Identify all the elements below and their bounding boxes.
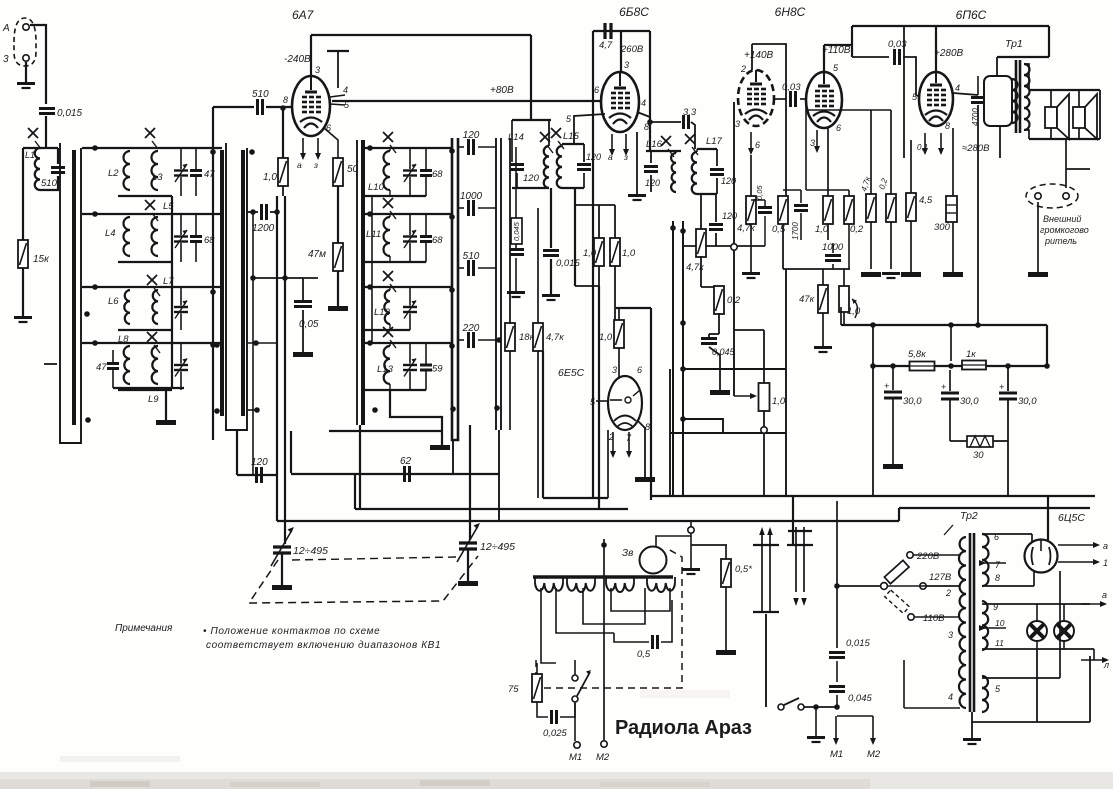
resistor 4,7к IF <box>533 323 543 351</box>
wire <box>389 343 391 346</box>
capacitor 0,025 <box>552 710 557 724</box>
svg-text:3: 3 <box>3 54 9 65</box>
wire L17 top <box>697 148 717 150</box>
wire <box>389 256 391 262</box>
svg-text:громкогово: громкогово <box>1040 225 1089 235</box>
wire row bottom L2/L3 <box>118 195 172 197</box>
ground left coil bank <box>156 420 176 425</box>
svg-text:1200: 1200 <box>252 223 275 234</box>
wire 62 bus up <box>290 431 292 473</box>
core mark left row 2 <box>145 200 158 221</box>
svg-text:L12: L12 <box>374 307 391 318</box>
coil L15 <box>557 146 562 188</box>
wire to pot 1,0 <box>843 269 845 286</box>
ground 30,0 a <box>883 464 903 469</box>
svg-text:а: а <box>608 152 613 162</box>
coil L8 <box>124 346 130 384</box>
wire <box>409 372 411 391</box>
capacitor 0,05 cathode <box>758 208 772 213</box>
wire <box>425 371 427 391</box>
svg-text:0,015: 0,015 <box>556 258 580 269</box>
svg-text:6А7: 6А7 <box>292 8 315 22</box>
svg-text:30: 30 <box>973 450 984 461</box>
wire <box>716 149 718 166</box>
wire <box>282 186 284 196</box>
resistor 18к <box>505 323 515 351</box>
wire 5,8к left <box>873 365 910 367</box>
wire <box>700 256 702 287</box>
wire <box>180 287 182 306</box>
coil L17 <box>692 152 697 194</box>
svg-text:а: а <box>297 160 302 170</box>
junction plate node <box>647 119 653 125</box>
wire <box>562 577 564 583</box>
trimmer capacitor L13 <box>403 359 417 377</box>
ground 0,015 mid <box>710 390 730 395</box>
svg-text:а: а <box>1103 541 1108 551</box>
svg-text:1,0: 1,0 <box>815 224 829 235</box>
wire osc row bottom L11 <box>365 261 426 263</box>
terminal detector <box>731 244 737 250</box>
tuning gang section bar 3 <box>356 140 358 425</box>
wire plate 6Н8С-1 <box>751 44 753 70</box>
svg-text:2: 2 <box>945 588 951 598</box>
wire L17 bottom <box>697 193 717 195</box>
wire tap y343 <box>247 342 277 344</box>
svg-text:з: з <box>313 160 318 170</box>
coil L11 <box>384 217 390 256</box>
wire secondary top <box>1024 64 1029 90</box>
wire x873 down to bus <box>872 366 874 496</box>
tube 6Е5С <box>608 376 642 430</box>
svg-text:+80В: +80В <box>490 85 514 96</box>
capacitor 47 row L2 <box>190 171 202 176</box>
junction dot <box>449 214 455 220</box>
svg-text:+110В: +110В <box>822 45 851 56</box>
capacitor 62 bus <box>405 466 410 482</box>
svg-text:6: 6 <box>755 140 760 150</box>
resistor 50 <box>333 158 343 186</box>
wire plate right <box>824 44 852 46</box>
wire <box>598 205 600 238</box>
terminal <box>778 704 784 710</box>
wire <box>112 350 114 363</box>
capacitor 68 L11 <box>420 237 432 242</box>
wire bar to pot return <box>683 419 723 433</box>
capacitor 120 ladder <box>469 139 474 155</box>
terminal pot <box>761 427 767 433</box>
wire <box>1093 649 1095 660</box>
resistor 0,2 vertical <box>886 194 896 222</box>
wire М2 long <box>603 539 605 740</box>
junction dot <box>210 342 216 348</box>
svg-text:127В: 127В <box>929 572 952 583</box>
svg-text:6: 6 <box>836 123 841 133</box>
svg-text:1к: 1к <box>966 349 976 360</box>
wire box left side long <box>592 31 594 497</box>
svg-text:Тр2: Тр2 <box>960 510 978 522</box>
wire <box>993 440 1008 442</box>
wire <box>302 278 304 300</box>
wire x670 to bus <box>669 369 671 496</box>
bus via capacitor 120 <box>237 474 277 476</box>
svg-text:+140В: +140В <box>744 50 774 61</box>
capacitor 0,03 interstage <box>791 91 796 107</box>
svg-text:6Н8С: 6Н8С <box>775 5 806 19</box>
coil L3 <box>152 151 159 190</box>
core mark left row 3 <box>147 275 160 296</box>
wire switch up <box>574 660 576 675</box>
ground osc bank <box>430 445 450 450</box>
wire <box>675 151 677 153</box>
svg-text:0,045: 0,045 <box>512 221 521 241</box>
capacitor 4,7 <box>605 23 611 39</box>
svg-text:4: 4 <box>948 692 953 702</box>
arrow tap 7 <box>979 560 1006 566</box>
junction dot <box>948 363 954 369</box>
wire grid node to R1,0 <box>282 108 284 158</box>
antenna terminal A <box>23 24 29 30</box>
wire <box>715 233 717 246</box>
svg-text:47к: 47к <box>799 294 815 305</box>
resistor 0,5 plate load <box>778 196 788 224</box>
svg-text:15к: 15к <box>33 254 50 265</box>
svg-text:6Е5С: 6Е5С <box>558 367 585 379</box>
svg-text:1,0: 1,0 <box>772 396 786 407</box>
ground 0,5 <box>716 650 736 655</box>
dashed motor box <box>536 549 682 688</box>
resistor 1к <box>962 361 986 370</box>
svg-text:0,045: 0,045 <box>848 693 872 704</box>
wire to ground mains <box>815 707 817 736</box>
wire <box>725 587 727 650</box>
wire <box>848 190 850 196</box>
svg-text:120: 120 <box>251 457 268 468</box>
wire <box>409 314 411 331</box>
wire to R0,5 <box>691 544 727 546</box>
svg-text:L9: L9 <box>148 394 159 405</box>
junction row L4 <box>92 211 98 217</box>
svg-text:1,0: 1,0 <box>622 248 636 259</box>
wire R50 to R47м <box>337 186 339 243</box>
wire 6П6С top <box>935 26 937 72</box>
capacitor 0,015 mains a <box>829 653 845 658</box>
wire <box>996 57 998 76</box>
resistor 4,7к vertical <box>866 194 876 222</box>
wire <box>914 616 960 618</box>
wire +80В screen bus <box>332 100 601 102</box>
wire cap to pin 8 <box>266 106 291 108</box>
svg-text:• Положение контактов по схеме: • Положение контактов по схеме <box>203 626 380 637</box>
wire L15 top <box>562 143 584 145</box>
wire varcap1 to ground <box>281 553 283 585</box>
wire 6Б8С top cap <box>620 31 622 72</box>
junction dot <box>214 342 220 348</box>
wire osc row bottom L10 <box>365 195 426 197</box>
wire y325 <box>841 324 1047 326</box>
wire eye pin 5 <box>596 400 608 402</box>
resistor 300 <box>946 196 957 222</box>
capacitor 1000 ladder <box>469 200 474 216</box>
junction dot <box>890 363 896 369</box>
wire L15 to AVC <box>574 188 576 286</box>
svg-text:0,03: 0,03 <box>782 82 801 93</box>
wire top bus to 6Б8С <box>311 34 531 36</box>
wire bypass cap <box>764 200 766 206</box>
wire bar3 down <box>359 425 361 509</box>
wire <box>782 197 784 198</box>
junction dot bar1 <box>84 311 90 317</box>
junction dot <box>834 583 840 589</box>
svg-text:0,5*: 0,5* <box>735 564 752 575</box>
resistor 1,0 osc grid <box>278 158 288 186</box>
capacitor 30,0 c <box>999 393 1017 399</box>
svg-text:Радиола Араз: Радиола Араз <box>615 717 752 739</box>
wire <box>708 334 710 337</box>
svg-text:L2: L2 <box>108 168 119 179</box>
svg-text:75: 75 <box>508 684 519 695</box>
svg-text:4: 4 <box>641 98 646 108</box>
wire row top L6/L7 <box>82 286 222 288</box>
wire eye pin down <box>607 430 609 498</box>
wire <box>843 312 845 325</box>
svg-text:4: 4 <box>343 85 348 95</box>
voltage selector column B <box>787 527 813 606</box>
scan noise bottom <box>0 772 1113 789</box>
core mark L1 <box>28 128 41 149</box>
wire winding 5 out <box>982 677 1060 679</box>
wire <box>890 222 892 269</box>
wire y433 pot return <box>670 432 786 434</box>
capacitor 1700 <box>794 206 808 211</box>
wire <box>832 243 834 253</box>
wire speaker right <box>1099 90 1101 139</box>
svg-text:2: 2 <box>740 64 746 74</box>
wire R4,7к top <box>870 110 872 194</box>
terminal М1 <box>574 742 580 748</box>
wire R 15к to ground <box>22 268 24 316</box>
svg-text:L10: L10 <box>368 182 385 193</box>
wire <box>548 120 550 146</box>
wire osc row bottom L13 <box>365 389 426 391</box>
wire <box>827 224 829 240</box>
junction row L2 <box>92 145 98 151</box>
wire 0,045 top <box>515 147 517 218</box>
selector B tick <box>788 530 812 532</box>
ground varcap1 <box>272 585 292 590</box>
coil L1 <box>35 148 40 190</box>
wire <box>478 146 496 148</box>
wire to ground left bank <box>165 388 167 420</box>
svg-text:5,8к: 5,8к <box>908 349 926 360</box>
svg-text:510: 510 <box>252 89 269 100</box>
junction dot <box>282 275 288 281</box>
wire <box>949 370 951 391</box>
motor stator bar <box>533 575 673 578</box>
wire filter resistor <box>950 440 967 442</box>
ground 0,045 <box>507 293 525 298</box>
wire rectifier filament top <box>982 533 1032 535</box>
wire diode loads top <box>575 204 615 206</box>
wire y496 down right <box>792 496 794 545</box>
wire bar2 to 120 cap <box>236 430 238 475</box>
wire <box>1033 570 1035 586</box>
heater arrow 6Б8С a <box>609 134 615 156</box>
svg-text:Тр1: Тр1 <box>1005 38 1023 50</box>
wire 1700 cap <box>800 190 802 203</box>
svg-text:8: 8 <box>945 121 950 131</box>
svg-text:68: 68 <box>432 169 443 180</box>
junction bar4 bottom <box>450 406 456 412</box>
capacitor 30,0 a <box>884 392 902 398</box>
wire L14 tank top <box>512 119 551 121</box>
svg-text:4: 4 <box>955 83 960 93</box>
wire 1200 right <box>270 211 277 213</box>
trimmer capacitor L11 <box>403 230 417 248</box>
speaker 1 <box>1045 90 1069 139</box>
wire R0,2 top <box>890 110 892 194</box>
wire <box>674 577 676 583</box>
ground external speaker <box>1028 272 1048 277</box>
wire plate 6П6С <box>953 93 978 95</box>
trimmer capacitor row L8 <box>174 359 188 377</box>
resistor 4,7к cathode <box>746 196 756 224</box>
coil Тр1 secondary <box>1024 64 1030 130</box>
wire to cap 0,05 <box>253 277 318 279</box>
wire <box>537 702 548 717</box>
capacitor 0,05 <box>294 302 312 307</box>
junction dot <box>250 275 256 281</box>
heater arrow 6Б8С b <box>623 134 629 156</box>
wire to 5,8к <box>950 325 952 361</box>
core mark L15 <box>551 128 564 149</box>
ground pickup <box>682 570 700 575</box>
wire AVC down <box>598 286 600 509</box>
wire <box>1059 571 1061 678</box>
wire rectifier filament bottom <box>982 585 1034 587</box>
wire <box>716 178 718 194</box>
svg-text:11: 11 <box>995 638 1004 648</box>
wire <box>733 330 735 396</box>
wire eye top <box>616 307 651 309</box>
wire <box>1089 139 1091 169</box>
wire row top L8/L9 <box>82 342 222 344</box>
coil L7 <box>152 290 158 324</box>
coil L10 <box>384 151 390 190</box>
ground R column a <box>861 272 881 277</box>
svg-text:6П6С: 6П6С <box>956 8 987 22</box>
tube 6А7 <box>292 76 330 136</box>
wire between 5,8к and 1к <box>934 365 962 367</box>
ground L14 <box>542 296 560 301</box>
capacitor 120 L14 <box>510 165 524 170</box>
svg-text:1700: 1700 <box>791 222 800 240</box>
junction dot <box>274 209 280 215</box>
wire <box>633 577 635 583</box>
wire switch to caps <box>804 706 838 708</box>
wire cathode-2 down <box>827 128 829 197</box>
coil L12 <box>384 290 390 324</box>
svg-text:L1: L1 <box>25 150 35 160</box>
tuning gang section bar 2 <box>226 143 247 430</box>
svg-text:8: 8 <box>283 95 288 105</box>
wire cathode to ground <box>636 132 638 194</box>
bus y508 <box>899 507 1090 509</box>
wire <box>618 308 620 321</box>
wire <box>1007 366 1009 391</box>
resistor 1,0 eye <box>614 320 624 348</box>
fuse <box>884 560 909 583</box>
wire <box>583 173 585 188</box>
cathode arrow 6Н8С-1 <box>748 132 754 155</box>
wire L17 to 120 cap <box>715 194 717 222</box>
svg-text:1000: 1000 <box>460 191 483 202</box>
svg-text:47м: 47м <box>308 249 326 260</box>
wire <box>949 366 951 391</box>
wire bottom return <box>972 721 1090 723</box>
wire varcap2 to ground <box>467 549 469 581</box>
wire bar2 tap line <box>252 212 254 475</box>
wire pickup to terminal <box>656 536 691 547</box>
svg-text:62: 62 <box>400 456 412 467</box>
wire <box>515 244 517 248</box>
wire heater top <box>982 603 1090 605</box>
wire <box>750 224 752 246</box>
wire <box>389 384 391 390</box>
svg-text:+: + <box>884 381 889 391</box>
svg-text:3: 3 <box>612 365 617 375</box>
svg-text:L8: L8 <box>118 334 129 345</box>
svg-text:L15: L15 <box>563 131 580 142</box>
wire L16 tank top <box>646 150 681 152</box>
voltage selector column A <box>753 527 779 612</box>
wire R0,5 down <box>782 224 784 269</box>
coil L16 <box>671 153 676 192</box>
junction dot <box>250 209 256 215</box>
capacitor 68 row L4 <box>190 237 202 242</box>
wire <box>614 205 616 238</box>
wire <box>478 207 496 209</box>
wire to cap 510 <box>458 267 464 269</box>
svg-text:9: 9 <box>993 602 998 612</box>
ground 4,5 <box>901 272 921 277</box>
wire eye cathode ground <box>638 421 645 477</box>
tube 6Н8С first half <box>738 70 774 126</box>
wire to cap 120 <box>458 146 464 148</box>
wire to variable cap 2 <box>469 425 471 540</box>
svg-text:6: 6 <box>594 85 599 95</box>
wire osc row top L13 <box>365 342 452 344</box>
motor winding 2 <box>567 583 595 592</box>
wire <box>516 173 518 188</box>
capacitor 120 L16 <box>644 167 658 172</box>
coil L6 <box>124 290 130 324</box>
external speaker connector dashed <box>1026 184 1078 208</box>
ground Тр2 <box>963 740 981 745</box>
junction dot <box>975 322 981 328</box>
wire <box>583 144 585 162</box>
svg-text:120: 120 <box>523 173 540 184</box>
junction bar2 top <box>249 149 255 155</box>
junction dot <box>1044 363 1050 369</box>
wire <box>389 324 391 330</box>
motor winding 3 <box>606 583 634 592</box>
wire <box>1036 604 1038 621</box>
core mark L14 <box>540 132 553 153</box>
wire <box>614 633 649 642</box>
wire <box>870 222 872 269</box>
svg-text:510: 510 <box>463 251 480 262</box>
